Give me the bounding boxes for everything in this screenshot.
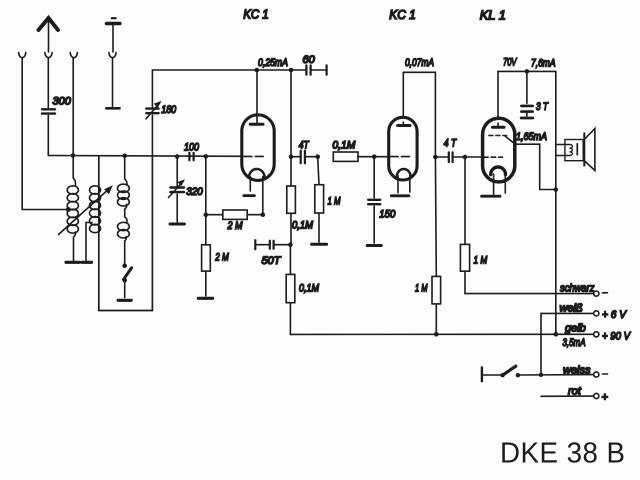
- V2 anode: [398, 72, 410, 125]
- grid leak R 1M of V3: [460, 157, 469, 294]
- wire cap300 down to node: [47, 116, 49, 156]
- svg-text:+ 90 V: + 90 V: [602, 331, 631, 343]
- wire rail down to grid node of V1: [290, 70, 292, 157]
- V3 control grid dashes: [484, 156, 503, 158]
- ground bar under V1 cathode: [244, 194, 255, 197]
- svg-text:1 M: 1 M: [474, 255, 488, 267]
- node: V2 anode / 4T2 / 1M drop: [433, 155, 438, 160]
- svg-text:+ 6 V: + 6 V: [602, 309, 628, 321]
- schwarz line from 1M: [465, 293, 594, 295]
- svg-text:60: 60: [303, 54, 316, 66]
- svg-text:2 M: 2 M: [227, 220, 243, 232]
- V1 cathode: [249, 169, 265, 215]
- V2 grid wire + dashes: [374, 156, 389, 158]
- tube V1 KC1 envelope: [242, 115, 274, 181]
- weiss +6V line: [541, 313, 594, 374]
- capacitor C 300: [42, 109, 55, 113]
- capacitor C 60: [306, 65, 326, 74]
- ground bar under 1M: [312, 243, 327, 246]
- ground bar under V3 cathode: [482, 195, 500, 198]
- coupling arrow through L1/L2: [59, 185, 113, 234]
- node A junction: [71, 153, 76, 158]
- svg-text:4T: 4T: [299, 140, 310, 152]
- svg-text:50T: 50T: [262, 255, 282, 267]
- svg-text:2 M: 2 M: [215, 252, 230, 264]
- anode top rail y=70: [152, 69, 306, 71]
- svg-text:1,65mA: 1,65mA: [516, 131, 547, 143]
- wire to V3 grid: [465, 156, 483, 158]
- svg-text:180: 180: [161, 104, 177, 116]
- svg-text:0,07mA: 0,07mA: [405, 57, 434, 69]
- svg-text:schwarz: schwarz: [560, 283, 595, 295]
- wire socket1 down and to coil tap: [22, 59, 66, 210]
- rot line: [541, 395, 594, 397]
- antenna symbol: [39, 18, 59, 52]
- +90V rail vertical: [555, 71, 557, 334]
- coil L2 on box left edge: [90, 186, 101, 233]
- svg-text:7,6mA: 7,6mA: [531, 58, 556, 70]
- svg-text:0,1M: 0,1M: [292, 220, 314, 232]
- svg-text:weiss: weiss: [563, 365, 591, 377]
- coupling capacitor C 4T (V1->V2): [291, 151, 320, 164]
- ground symbol (top earth): [107, 18, 120, 52]
- svg-text:100: 100: [184, 142, 200, 154]
- bottom +90V bus: [290, 333, 594, 335]
- V1 anode: [250, 70, 263, 124]
- tube V2 KC1 envelope: [389, 117, 417, 180]
- +90V terminal: [594, 332, 599, 337]
- anode load R 1M of V2: [432, 157, 441, 337]
- svg-text:320: 320: [186, 186, 203, 198]
- svg-text:KC 1: KC 1: [243, 7, 269, 22]
- grid leak chain: wire down from grid node: [205, 156, 207, 244]
- coupling capacitor C 4T (V2->V3): [435, 152, 467, 162]
- antenna socket 3: [70, 53, 77, 58]
- ground bar under L2 tap: [82, 261, 92, 264]
- V3 anode: [493, 71, 505, 127]
- resistor R 0,1M lower: [286, 245, 295, 335]
- svg-text:+: +: [602, 392, 609, 404]
- capacitor C 50T: [255, 240, 290, 249]
- V3 cathode: [491, 167, 506, 194]
- ground bar under V2 cathode: [391, 194, 409, 197]
- junction anode load: [289, 68, 294, 73]
- node coil3 top junction: [122, 154, 127, 159]
- coil box (wave switch unit): [99, 156, 153, 311]
- resistor R 2M vertical: [202, 245, 211, 296]
- svg-text:0,1M: 0,1M: [332, 140, 356, 152]
- ground socket 4: [109, 53, 116, 58]
- switch S1 (wave switch): [122, 263, 131, 297]
- capacitor C 100 (grid): [189, 153, 193, 161]
- junction anode V1: [254, 68, 259, 73]
- svg-text:KL 1: KL 1: [480, 8, 506, 23]
- loudspeaker with output transformer: [556, 129, 595, 171]
- antenna socket 1: [19, 53, 26, 58]
- filament switch: [482, 366, 594, 381]
- grid capacitor C 150: [367, 157, 381, 246]
- coil L3 secondary inside box: [118, 156, 130, 264]
- coil L1 antenna coil: [67, 156, 78, 261]
- variable capacitor C 180 (feedback): [146, 70, 162, 156]
- grid top wire (y=156) from cap300 node to tube V1 grid: [48, 155, 242, 158]
- junction blob at coil tap: [66, 207, 71, 212]
- ground bar under L1: [66, 261, 79, 264]
- grid resistor R 1M vertical: [315, 157, 324, 242]
- resistor R 2M horizontal: [206, 210, 265, 219]
- V3 anode rail to speaker: [498, 70, 556, 72]
- svg-text:DKE 38 B: DKE 38 B: [500, 438, 626, 470]
- L2 tap wire to ground: [86, 223, 92, 261]
- svg-text:3,5mA: 3,5mA: [563, 337, 586, 349]
- svg-text:0,1M: 0,1M: [299, 283, 320, 295]
- anode resistor chain of V1: R 0,1M upper: [287, 154, 296, 247]
- wire ground socket4 down to chassis stub: [112, 59, 114, 108]
- svg-text:KC 1: KC 1: [389, 7, 416, 22]
- svg-text:1 M: 1 M: [415, 283, 428, 295]
- svg-text:4 T: 4 T: [444, 138, 457, 150]
- V1 grid dashes: [244, 155, 263, 157]
- wire socket3 down: [72, 59, 74, 156]
- svg-text:3 T: 3 T: [536, 101, 549, 113]
- svg-text:0,25mA: 0,25mA: [258, 57, 288, 69]
- junction grid node: [204, 154, 209, 159]
- svg-text:weiß: weiß: [560, 303, 584, 315]
- ground bar in box: [118, 299, 131, 302]
- svg-text:70V: 70V: [503, 57, 518, 69]
- svg-text:300: 300: [53, 96, 72, 108]
- variable capacitor C 320 (tuning): [169, 154, 186, 224]
- ground bar under 2M: [198, 297, 212, 300]
- tube V3 KL1 envelope: [483, 118, 515, 182]
- antenna socket 2: [45, 53, 52, 58]
- resistor R 0,1M horizontal (V2 grid stopper): [333, 152, 376, 161]
- svg-text:150: 150: [379, 209, 396, 221]
- V2 cathode: [397, 169, 411, 193]
- svg-text:rot: rot: [568, 386, 582, 398]
- capacitor C 3T: [521, 71, 533, 118]
- V2 anode wire over to 4T/1M node: [403, 72, 435, 157]
- V3 screen grid dashes + lead: [489, 136, 556, 190]
- svg-text:gelb: gelb: [565, 323, 586, 335]
- chassis stub bar: [106, 107, 119, 110]
- wire socket2 to capacitor 300: [47, 59, 49, 108]
- svg-text:1 M: 1 M: [328, 196, 342, 208]
